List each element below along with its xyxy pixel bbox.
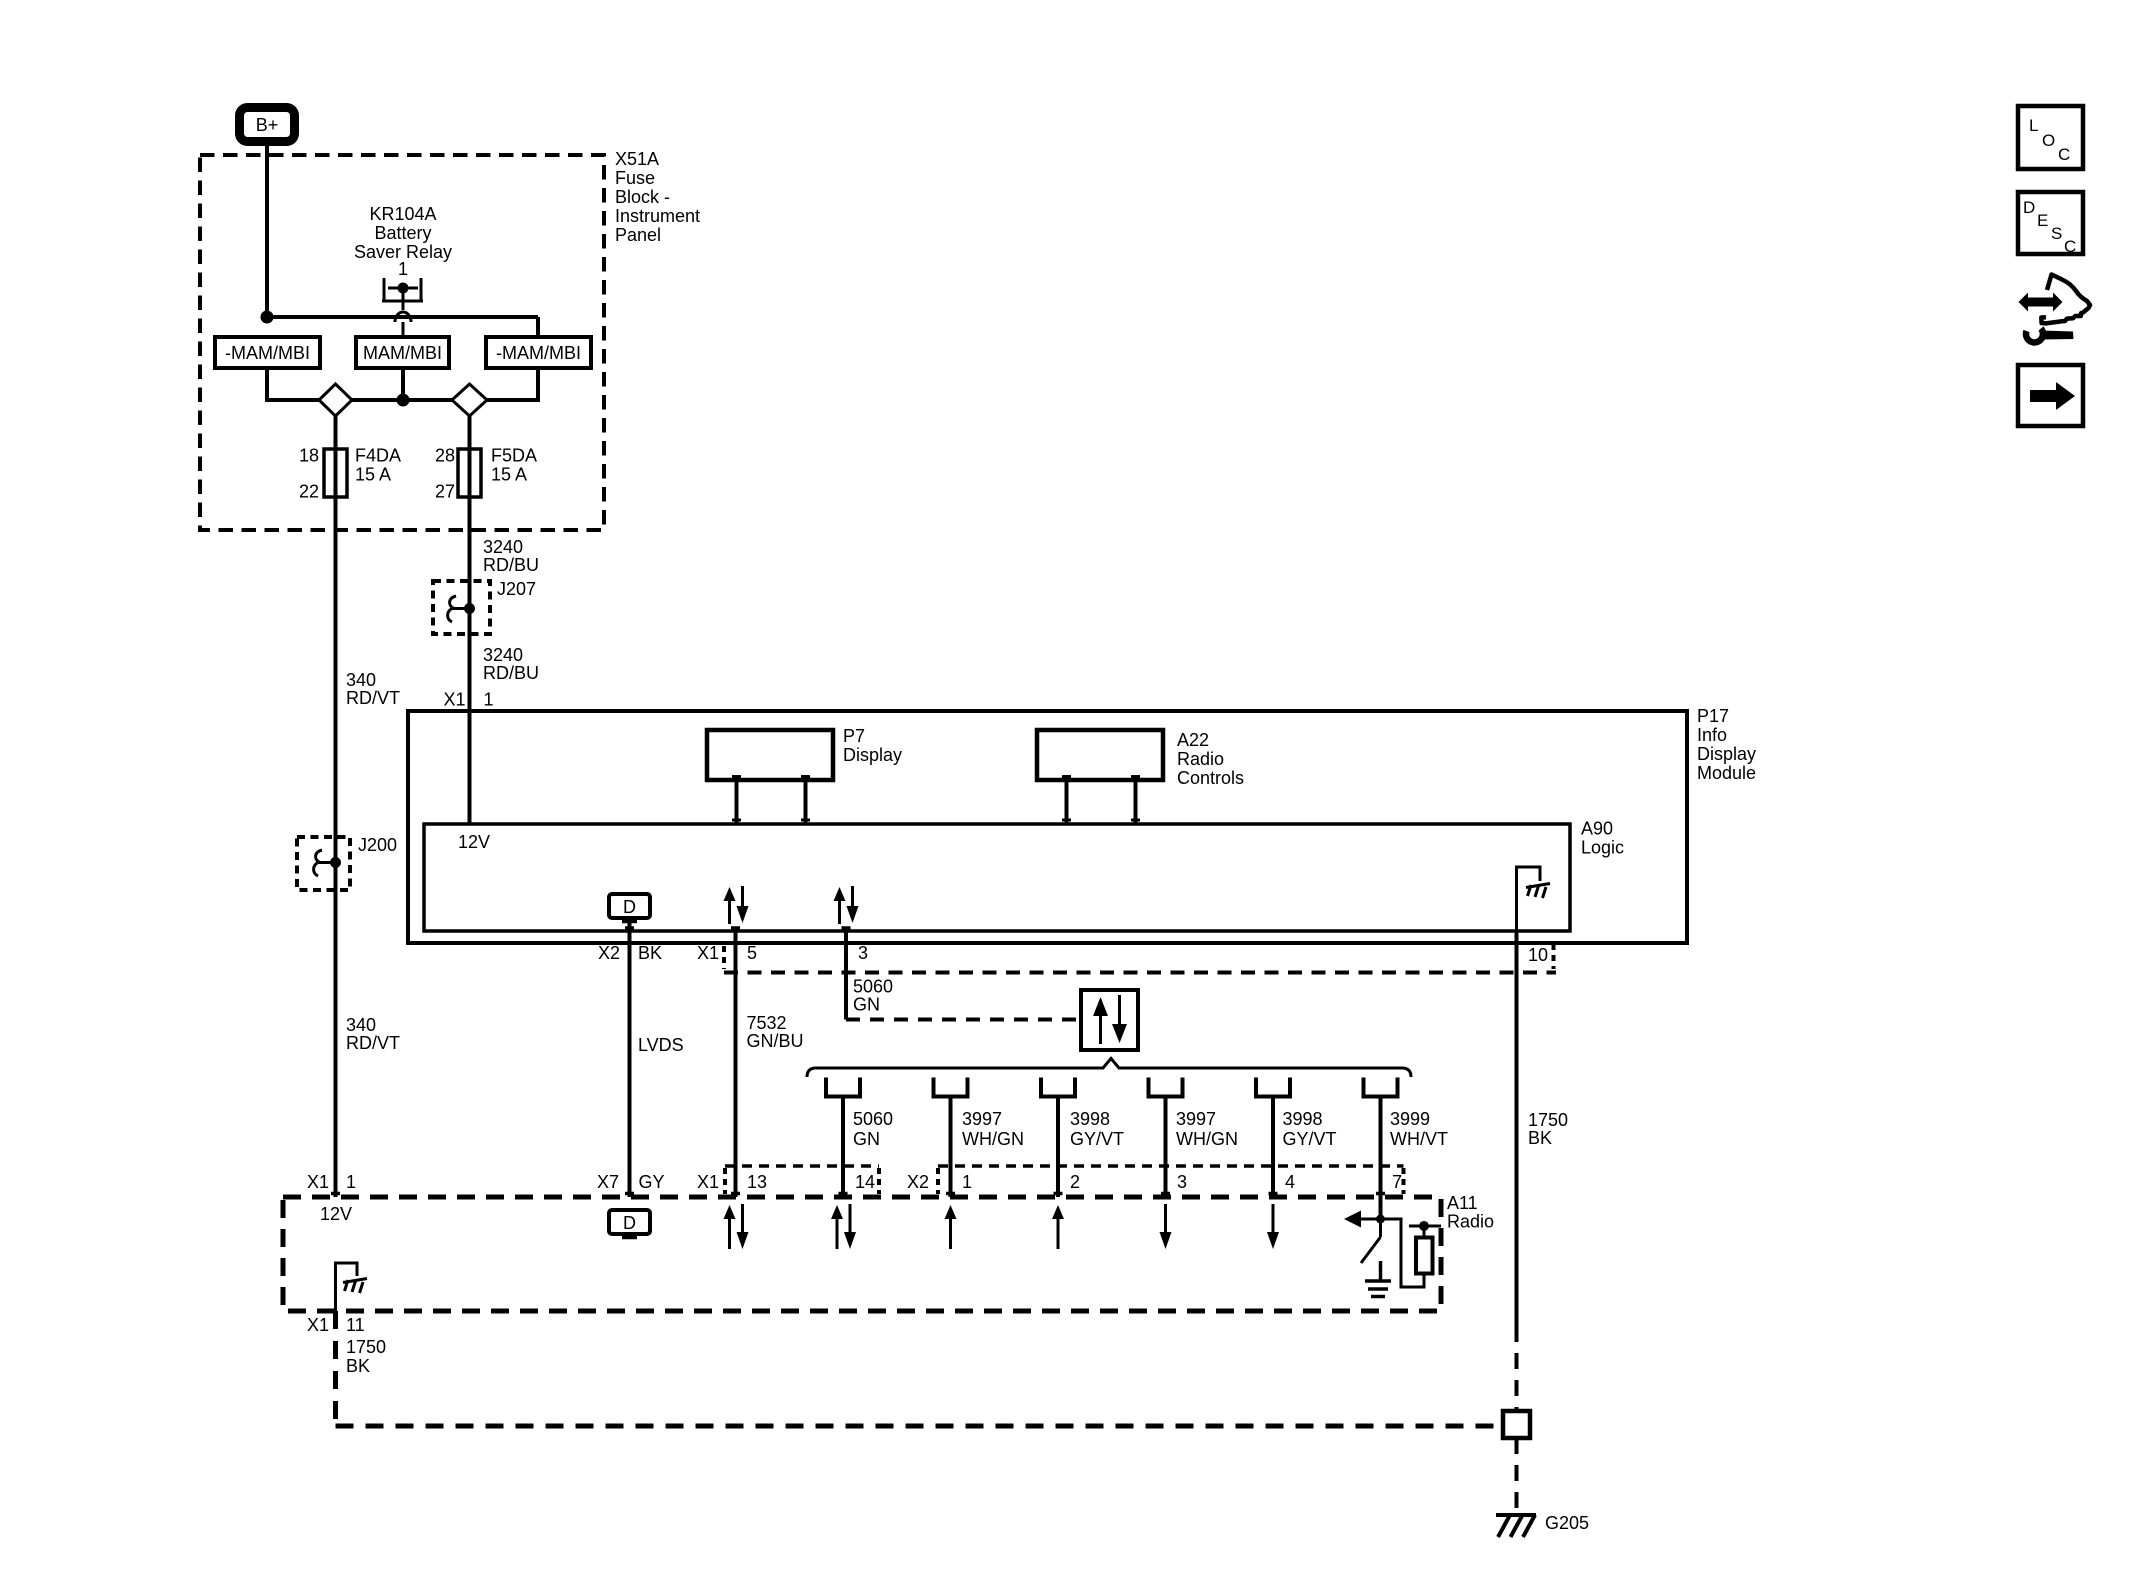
svg-text:12V: 12V — [320, 1204, 352, 1224]
wire label 3240 RD/BU upper — [483, 537, 539, 575]
label A22 Radio Controls — [1177, 730, 1244, 788]
svg-text:10: 10 — [1528, 945, 1548, 965]
svg-text:A22: A22 — [1177, 730, 1209, 750]
svg-text:14: 14 — [855, 1172, 875, 1192]
svg-text:5: 5 — [747, 943, 757, 963]
resistor top wire and dot — [1423, 1226, 1426, 1238]
bidirectional arrows at A11 pin 13 — [724, 1204, 749, 1249]
terminal cup pin 14 column — [824, 1078, 862, 1099]
svg-text:X7: X7 — [597, 1172, 619, 1192]
wire cup to A11 pin 4 — [1271, 1097, 1275, 1198]
svg-text:3998: 3998 — [1070, 1109, 1110, 1129]
dashed wire 1750 BK bottom run — [336, 1424, 1504, 1429]
svg-text:GN: GN — [853, 1129, 880, 1149]
svg-text:D: D — [623, 1213, 636, 1233]
pin tick 5 at A90 bottom — [731, 926, 740, 930]
resistor in A11 — [1416, 1238, 1433, 1274]
svg-text:5060: 5060 — [853, 1109, 893, 1129]
wire B+ down to bus — [265, 146, 269, 317]
diamond junction right — [452, 384, 487, 416]
svg-text:L: L — [2029, 116, 2038, 135]
wire diamond right to fuse F5DA and down to module — [468, 416, 472, 824]
svg-text:D: D — [623, 897, 636, 917]
pin labels above A11 — [597, 1172, 1402, 1192]
svg-text:Logic: Logic — [1581, 838, 1624, 858]
wire label 3240 RD/BU lower — [483, 645, 539, 683]
wire label 1750 BK left — [346, 1337, 386, 1376]
connector row X1 of P17: right dotted mark — [1552, 944, 1556, 969]
label A90 Logic — [1581, 819, 1624, 858]
ground pin inside A11 — [336, 1263, 368, 1311]
wire pin 3 down then 5060 GN dashed — [844, 929, 848, 1020]
wire cup to A11 pin 2 — [1056, 1097, 1060, 1198]
wire left box to diamond node — [267, 368, 319, 400]
wire X2 BK from D icon down to A11 — [628, 922, 632, 1198]
svg-text:X1: X1 — [697, 943, 719, 963]
svg-text:11: 11 — [346, 1315, 365, 1335]
svg-text:C: C — [2064, 237, 2076, 256]
terminal cup pin 2 column — [1039, 1078, 1077, 1099]
display P7 box — [707, 730, 833, 780]
pin label X1 11 at A11 bottom — [307, 1315, 365, 1335]
svg-text:BK: BK — [1528, 1128, 1552, 1148]
fuse F5DA symbol — [458, 449, 481, 497]
svg-text:Panel: Panel — [615, 225, 661, 245]
wire P7 stub left — [735, 780, 739, 824]
svg-text:Display: Display — [843, 745, 902, 765]
svg-text:7532: 7532 — [747, 1013, 787, 1033]
diamond junction left — [319, 384, 352, 416]
svg-text:340: 340 — [346, 670, 376, 690]
sidebar icon LOC box — [2018, 106, 2083, 169]
relay KR104A contact symbol — [382, 278, 423, 337]
wire P7 stub right — [804, 780, 808, 824]
svg-text:G205: G205 — [1545, 1513, 1589, 1533]
terminal cup pin 1 column — [932, 1078, 970, 1099]
label P7 Display — [843, 726, 902, 765]
logic module A90 box — [424, 824, 1570, 931]
wire bus right drop to -MAM/MBI — [536, 317, 540, 337]
wire bus horizontal — [267, 315, 538, 319]
ground G205 symbol — [1496, 1515, 1536, 1537]
svg-text:BK: BK — [346, 1356, 370, 1376]
splice J207 dashed box — [433, 581, 490, 634]
wire pin 5 down to A11 pin 13 — [734, 929, 738, 1197]
wire cup to A11 pin 1 — [949, 1097, 953, 1198]
pin label X1 1 at A11 left — [307, 1172, 356, 1192]
svg-text:RD/VT: RD/VT — [346, 1033, 400, 1053]
svg-text:X1: X1 — [444, 690, 466, 710]
terminal cup pin 4 column — [1254, 1078, 1292, 1099]
speaker circuit: wire loop to resistor — [1381, 1219, 1425, 1287]
pin tick 3 at A90 bottom — [842, 926, 851, 930]
splice J207 symbol — [448, 596, 475, 622]
connector row X2 of A11: right dotted mark — [1402, 1168, 1406, 1194]
svg-text:1: 1 — [962, 1172, 972, 1192]
speaker circuit at A11 pin 7: junction dot — [1376, 1215, 1385, 1224]
connector row X1 of P17: left dotted mark — [722, 946, 726, 969]
junction dot center — [397, 394, 410, 407]
pin labels under P17 — [598, 943, 1548, 965]
svg-text:X1: X1 — [697, 1172, 719, 1192]
input arrow at A11 pin 2 — [1052, 1205, 1064, 1249]
svg-text:3997: 3997 — [962, 1109, 1002, 1129]
bidirectional arrows at A90 pin 5 — [724, 886, 749, 924]
wire diamond to center junction — [352, 398, 452, 402]
svg-text:1750: 1750 — [346, 1337, 386, 1357]
svg-text:D: D — [2023, 198, 2035, 217]
svg-text:GY/VT: GY/VT — [1283, 1129, 1337, 1149]
svg-text:GY/VT: GY/VT — [1070, 1129, 1124, 1149]
svg-text:GN: GN — [853, 995, 880, 1015]
svg-text:Radio: Radio — [1177, 749, 1224, 769]
pin ticks A22 stubs — [1062, 777, 1140, 821]
svg-text:X2: X2 — [598, 943, 620, 963]
dashed wire 1750 BK down from A11 — [333, 1311, 338, 1426]
device box -MAM/MBI right — [486, 337, 591, 368]
svg-text:A11: A11 — [1447, 1193, 1478, 1213]
ground pin inside A90 — [1517, 867, 1551, 931]
inline connector square — [1503, 1411, 1530, 1438]
svg-text:18: 18 — [299, 446, 319, 466]
svg-text:-MAM/MBI: -MAM/MBI — [225, 343, 310, 363]
bidirectional arrows at A11 pin 14 — [831, 1204, 856, 1249]
wire cup to A11 pin 7 — [1379, 1097, 1383, 1220]
svg-text:13: 13 — [747, 1172, 767, 1192]
wire diamond left to fuse F4DA and down (340 RD/VT circuit) — [334, 416, 338, 1197]
label X51A Fuse Block - Instrument Panel — [615, 149, 700, 245]
svg-text:-MAM/MBI: -MAM/MBI — [496, 343, 581, 363]
svg-text:B+: B+ — [256, 115, 279, 135]
svg-text:15 A: 15 A — [491, 465, 527, 485]
wire 1750 BK from A90 ground down — [1515, 931, 1519, 1326]
svg-text:3999: 3999 — [1390, 1109, 1430, 1129]
sidebar icon repair info (arrows, outline, wrench) — [2019, 275, 2091, 343]
output arrow at A11 pin 3 — [1160, 1204, 1172, 1249]
svg-text:WH/GN: WH/GN — [962, 1129, 1024, 1149]
svg-text:2: 2 — [1070, 1172, 1080, 1192]
label P17 Info Display Module — [1697, 706, 1756, 783]
svg-text:340: 340 — [346, 1015, 376, 1035]
svg-text:27: 27 — [435, 482, 455, 502]
wire cup to A11 pin 3 — [1164, 1097, 1168, 1198]
label A11 Radio — [1447, 1193, 1494, 1232]
svg-text:Controls: Controls — [1177, 768, 1244, 788]
sidebar icon next-page arrow box — [2018, 365, 2083, 426]
dashed wire 1750 BK right drop — [1515, 1326, 1519, 1411]
pin ticks at A11 top edge — [331, 1192, 1385, 1196]
display icon D inside A11 — [609, 1210, 650, 1238]
device box MAM/MBI middle — [356, 337, 449, 368]
svg-text:3: 3 — [1177, 1172, 1187, 1192]
terminal cup pin 3 column — [1147, 1078, 1185, 1099]
output arrow at A11 pin 4 — [1267, 1204, 1279, 1249]
svg-text:12V: 12V — [458, 832, 490, 852]
connector row X2 of A11: dashed line — [938, 1164, 1404, 1168]
svg-text:MAM/MBI: MAM/MBI — [363, 343, 442, 363]
wire A22 stub left — [1065, 780, 1069, 824]
svg-text:X1: X1 — [307, 1315, 329, 1335]
pin label X1 1 at P17 12V input — [444, 690, 494, 710]
label KR104A Battery Saver Relay pin 1 — [354, 204, 452, 279]
svg-text:1: 1 — [484, 690, 494, 710]
svg-text:3240: 3240 — [483, 537, 523, 557]
svg-text:3: 3 — [858, 943, 868, 963]
svg-text:Info: Info — [1697, 725, 1727, 745]
wire label 1750 BK right — [1528, 1110, 1568, 1148]
wire cup to A11 pin 14 — [841, 1097, 845, 1198]
svg-text:GN/BU: GN/BU — [747, 1031, 804, 1051]
svg-text:P7: P7 — [843, 726, 865, 746]
svg-text:1: 1 — [346, 1172, 356, 1192]
svg-text:X51A: X51A — [615, 149, 659, 169]
pin tick X2 BK at A90 bottom — [625, 926, 634, 930]
speaker circuit: left output arrow — [1344, 1211, 1381, 1228]
svg-text:22: 22 — [299, 482, 319, 502]
svg-text:F4DA: F4DA — [355, 446, 401, 466]
svg-text:Block -: Block - — [615, 187, 670, 207]
svg-text:Instrument: Instrument — [615, 206, 700, 226]
dashed wire 5060 GN to arrow box — [846, 1018, 1081, 1022]
device box -MAM/MBI left — [215, 337, 320, 368]
terminal cup pin 7 column — [1362, 1078, 1400, 1099]
wire A22 stub right — [1134, 780, 1138, 824]
svg-text:7: 7 — [1392, 1172, 1402, 1192]
speaker circuit: earth ground — [1365, 1261, 1391, 1297]
svg-text:GY: GY — [639, 1172, 665, 1192]
svg-text:J207: J207 — [497, 579, 536, 599]
svg-text:RD/BU: RD/BU — [483, 663, 539, 683]
svg-text:4: 4 — [1285, 1172, 1295, 1192]
serial data arrow box — [1081, 990, 1138, 1050]
svg-text:WH/VT: WH/VT — [1390, 1129, 1448, 1149]
svg-text:X2: X2 — [907, 1172, 929, 1192]
svg-text:1750: 1750 — [1528, 1110, 1568, 1130]
svg-text:P17: P17 — [1697, 706, 1729, 726]
splice J200 dashed box — [297, 837, 350, 890]
svg-text:15 A: 15 A — [355, 465, 391, 485]
svg-text:S: S — [2051, 224, 2062, 243]
svg-text:Battery: Battery — [374, 223, 431, 243]
svg-text:O: O — [2042, 131, 2055, 150]
svg-text:F5DA: F5DA — [491, 446, 537, 466]
svg-text:1: 1 — [398, 259, 408, 279]
fuse F4DA symbol — [324, 449, 347, 497]
input arrow at A11 pin 1 — [945, 1205, 957, 1249]
svg-text:Module: Module — [1697, 763, 1756, 783]
junction dot on bus left — [261, 311, 274, 324]
speaker circuit: switch blade — [1361, 1219, 1381, 1263]
wire labels harness row — [853, 1109, 1448, 1149]
svg-text:Fuse: Fuse — [615, 168, 655, 188]
wire right diamond to right box — [487, 368, 538, 400]
dashed wire connector to G205 — [1515, 1438, 1519, 1512]
svg-text:RD/BU: RD/BU — [483, 555, 539, 575]
svg-text:C: C — [2058, 145, 2070, 164]
wire center box stem — [401, 368, 405, 400]
connector row X1 of A11: dashed line — [725, 1164, 879, 1168]
bidirectional arrows at A90 pin 3 — [834, 886, 859, 924]
brace gathering six wires — [807, 1059, 1411, 1078]
pin ticks P7 stubs — [732, 777, 810, 821]
radio A11 dashed box — [283, 1197, 1441, 1311]
radio controls A22 box — [1037, 730, 1163, 780]
svg-text:28: 28 — [435, 446, 455, 466]
svg-text:Display: Display — [1697, 744, 1756, 764]
svg-text:3997: 3997 — [1176, 1109, 1216, 1129]
svg-text:E: E — [2037, 211, 2048, 230]
wire label 5060 GN upper — [853, 977, 893, 1015]
wire label 340 RD/VT upper — [346, 670, 400, 708]
connector row X1 of A11: right dotted mark — [877, 1168, 881, 1194]
svg-text:LVDS: LVDS — [638, 1035, 684, 1055]
svg-text:5060: 5060 — [853, 977, 893, 997]
sidebar icon DESC box — [2018, 192, 2083, 256]
svg-text:3240: 3240 — [483, 645, 523, 665]
fuse block X51A dashed outline — [200, 155, 604, 530]
svg-text:A90: A90 — [1581, 819, 1613, 839]
module P17 outer box — [408, 711, 1687, 943]
display icon D inside A90 — [609, 894, 650, 922]
connector row X2 of A11: left dotted mark — [936, 1168, 940, 1194]
wire label 7532 GN/BU — [747, 1013, 804, 1051]
splice J200 symbol — [314, 850, 341, 876]
connector row X1 of P17: dashed line — [724, 971, 1556, 975]
svg-text:WH/GN: WH/GN — [1176, 1129, 1238, 1149]
svg-text:RD/VT: RD/VT — [346, 688, 400, 708]
svg-text:BK: BK — [638, 943, 662, 963]
battery positive terminal B+ — [240, 108, 295, 142]
svg-text:Radio: Radio — [1447, 1212, 1494, 1232]
svg-text:J200: J200 — [358, 835, 397, 855]
svg-text:X1: X1 — [307, 1172, 329, 1192]
svg-text:3998: 3998 — [1283, 1109, 1323, 1129]
svg-text:KR104A: KR104A — [369, 204, 436, 224]
connector row X1 of A11: left dotted mark — [723, 1168, 727, 1194]
wire label 340 RD/VT lower — [346, 1015, 400, 1053]
